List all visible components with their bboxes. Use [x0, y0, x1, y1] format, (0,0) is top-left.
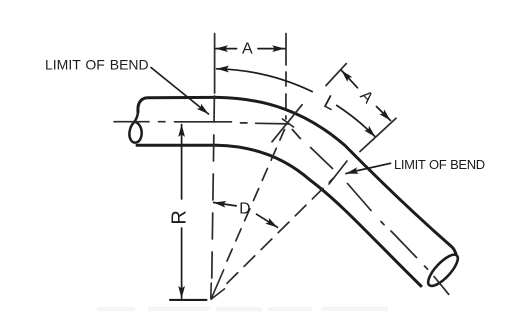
leader line left (limit of bend) — [151, 68, 209, 115]
radius dimension R line (vertical, arrows both ends) — [181, 125, 183, 200]
bisector solid stub and open arrowhead at bend center — [211, 270, 225, 299]
right extension line to apex (solid top, dashed below) — [285, 34, 287, 66]
vertical extension line (limit of bend at start, solid top) — [214, 34, 216, 94]
apex X mark — [272, 105, 302, 142]
leader line right (limit of bend) — [346, 163, 391, 173]
tube right end cap ellipse — [424, 250, 462, 290]
svg-text:LIMIT OF BEND: LIMIT OF BEND — [45, 57, 149, 73]
faint cropped caption remnants at bottom — [97, 307, 388, 312]
angle D arc right arrow — [257, 214, 278, 227]
svg-text:L: L — [320, 92, 339, 116]
dimension A (top) line with arrows — [216, 48, 237, 50]
limit of bend tick (right, across centerline) — [329, 161, 347, 184]
baseline at bend center — [170, 299, 207, 301]
entry centerline (dash-dot) — [114, 122, 289, 124]
exit centerline (dash-dot along tube) — [292, 130, 448, 295]
tube left end cap loop — [129, 112, 141, 143]
inclined dimension A line with arrows — [342, 71, 358, 88]
svg-text:R: R — [168, 210, 190, 224]
arc dimension L — [217, 69, 313, 92]
bisector line from apex to bend center (dashed with arrow at center) — [227, 130, 285, 262]
inclined dimension A: extension tick lower — [360, 118, 396, 151]
vertical construction line to bend center (dashed) — [212, 96, 215, 290]
svg-text:A: A — [242, 41, 253, 58]
inclined dimension A: extension tick upper — [326, 64, 346, 86]
svg-text:A: A — [356, 87, 376, 107]
svg-text:D: D — [239, 201, 250, 218]
tube outer edge (entry top, bend, exit upper-right side) — [138, 97, 456, 253]
angle D arc left arrow — [214, 203, 237, 206]
radius construction line from center to limit of bend (dashed) — [227, 179, 333, 284]
svg-text:LIMIT OF BEND: LIMIT OF BEND — [394, 157, 485, 172]
tube inner edge (entry bottom, bend, exit lower-left side) — [137, 145, 421, 286]
